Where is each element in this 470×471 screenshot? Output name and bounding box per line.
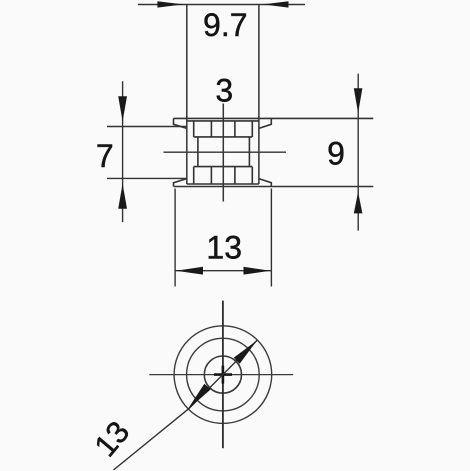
bottom view: horizontal centerline (149, 374, 293, 376)
bottom view: outer circle (flange OD 13) (174, 326, 272, 424)
dimension 13 lower: left arrowhead (out) (176, 267, 203, 275)
dimension 9.7: left arrowhead (157, 1, 183, 7)
svg-text:13: 13 (206, 229, 242, 265)
dimension 9: top arrowhead (down) (354, 88, 363, 113)
diameter 13 leader line (through circle at 45 deg) (114, 341, 257, 471)
dimension 13 lower: right arrowhead (out) (244, 267, 271, 275)
dimension 9: bottom arrowhead (up) (354, 192, 363, 213)
svg-text:9: 9 (327, 136, 345, 172)
bottom view: center cross thick (214, 366, 232, 384)
pulley side view: top row vertical lines (bearing races) (194, 121, 253, 137)
pulley side view: bottom edge line (extends right as ext line for 9) (174, 186, 374, 188)
extension line right (barrel dia 9.7) (258, 5, 260, 185)
pulley side view: bottom row vertical lines (bearing races) (194, 167, 253, 184)
pulley side view: inner horizontal lines (barrel top/bottom, race lines) (187, 121, 259, 184)
dimension 9.7 top: dimension line (138, 4, 305, 6)
pulley side view: middle band vertical lines (198, 137, 250, 167)
svg-text:9.7: 9.7 (203, 7, 247, 43)
dimension 9.7: right arrowhead (263, 1, 289, 7)
svg-text:7: 7 (96, 138, 114, 174)
diameter 13 leader: lower-left arrowhead (187, 384, 210, 410)
dimension 7: bottom arrowhead (up) (118, 184, 127, 209)
dimension 13 lower: dimension line (175, 270, 271, 272)
pulley side view: right flange edges and chamfers (259, 118, 271, 186)
extension line left (barrel dia 9.7) (186, 5, 188, 185)
pulley side view: left flange edges and chamfers (174, 118, 187, 186)
bottom view: vertical centerline (222, 301, 224, 449)
dimension 7: top arrowhead (down) (118, 96, 127, 121)
dimension 9 right: dimension line (357, 74, 359, 231)
dimension 7: bottom extension line (107, 177, 186, 179)
dimension 13 lower: left extension line (174, 189, 176, 287)
diameter 13 leader: upper-right arrowhead (234, 340, 258, 364)
svg-text:3: 3 (215, 72, 233, 108)
dimension 7 left: dimension line (122, 81, 124, 222)
dimension 13 lower: right extension line (270, 189, 272, 287)
dimension 7: top extension line (107, 126, 186, 128)
center line vertical of side view (leader for 3) (222, 104, 224, 202)
pulley side view: horizontal centerline (164, 151, 287, 153)
pulley side view: top edge line (extends right as ext line for 9) (174, 117, 374, 119)
bottom view: inner circle (hub) (204, 356, 241, 393)
bottom view: middle circle (barrel OD) (187, 338, 260, 411)
